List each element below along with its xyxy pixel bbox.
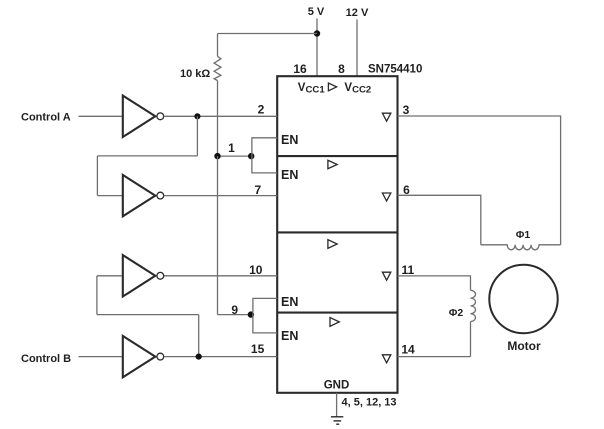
wire pin 2 [164, 115, 278, 117]
IC internal divider 1 [277, 155, 397, 157]
wire pin 11 [398, 276, 471, 290]
junction dot node B [196, 354, 202, 360]
inverter gate B1 [123, 255, 164, 296]
svg-text:EN: EN [281, 329, 298, 343]
resistor R1 10 kOhm zigzag [214, 56, 221, 80]
output symbol driver 4 [382, 355, 390, 363]
svg-text:Φ2: Φ2 [449, 307, 464, 319]
wire pin 6 [398, 195, 481, 245]
wire: 5V rail to resistor top [218, 33, 318, 35]
wire Phi2 bottom lead [470, 322, 472, 357]
svg-text:5 V: 5 V [308, 6, 325, 18]
wire pin 3 [398, 116, 561, 245]
svg-text:Control B: Control B [21, 353, 71, 365]
wire: 12V vertical to pin 8 [356, 20, 358, 77]
wire inverter A2 input [97, 195, 122, 197]
svg-text:9: 9 [231, 303, 238, 317]
buffer symbol driver 4 [330, 318, 339, 327]
svg-text:VCC1: VCC1 [298, 82, 326, 96]
wire feedback B vertical [198, 315, 200, 357]
svg-text:1: 1 [228, 141, 235, 155]
wire inverter B1 input [97, 275, 122, 277]
svg-text:10 kΩ: 10 kΩ [180, 68, 210, 80]
svg-text:Control A: Control A [21, 112, 71, 124]
svg-text:EN: EN [281, 133, 298, 147]
junction dot node 9 [248, 311, 254, 317]
svg-text:GND: GND [324, 379, 350, 391]
svg-text:VCC2: VCC2 [344, 82, 371, 96]
svg-text:8: 8 [338, 62, 345, 76]
inverter gate A1 [123, 96, 164, 137]
svg-text:6: 6 [403, 183, 410, 197]
IC internal divider 2 [277, 231, 397, 233]
svg-text:SN754410: SN754410 [368, 64, 422, 76]
wire rail to node 9 [217, 156, 219, 315]
svg-text:12 V: 12 V [346, 7, 369, 19]
svg-text:2: 2 [258, 103, 265, 117]
svg-text:14: 14 [401, 342, 415, 356]
svg-text:EN: EN [281, 168, 298, 182]
inductor coil Phi2 [471, 290, 476, 321]
buffer symbol driver 1 [328, 83, 336, 91]
buffer symbol driver 3 [328, 240, 337, 249]
svg-text:Motor: Motor [507, 339, 541, 353]
output symbol driver 1 [382, 113, 390, 121]
output symbol driver 2 [382, 193, 390, 201]
wire pin 7 [164, 195, 278, 197]
inverter gate B2 [123, 336, 164, 377]
svg-text:16: 16 [293, 62, 307, 76]
IC U1 SN754410 outline [277, 76, 397, 393]
ground symbol [331, 417, 343, 424]
junction dot on 5V rail [314, 30, 320, 36]
motor M1 circle [489, 265, 557, 333]
wire Control B input [79, 356, 123, 358]
svg-text:15: 15 [251, 342, 265, 356]
junction dot node 1 right [248, 153, 254, 159]
buffer symbol driver 2 [328, 160, 337, 168]
wire feedback A vertical [196, 116, 198, 156]
wire feedback B horizontal [97, 314, 199, 316]
output symbol driver 3 [382, 272, 390, 280]
wire Control A input [79, 115, 123, 117]
junction dot node 1 left [214, 153, 220, 159]
wire node 9 horizontal [218, 314, 251, 316]
svg-text:11: 11 [402, 263, 415, 277]
wire feedback B left vertical [96, 276, 98, 315]
wire pin 15 [164, 356, 278, 358]
wire: 5V vertical to pin 16 [316, 19, 318, 77]
wire node 1 horizontal [218, 155, 252, 157]
svg-text:10: 10 [249, 263, 263, 277]
wire: resistor bottom lead down to node 1 [217, 81, 219, 157]
wire pin 10 [164, 275, 278, 277]
inverter gate A2 [123, 175, 164, 216]
svg-text:EN: EN [281, 295, 298, 309]
IC internal divider 3 [277, 312, 397, 314]
wire GND stem [336, 393, 338, 417]
wire EN bracket driver 3-4 [253, 298, 277, 333]
svg-text:Φ1: Φ1 [516, 229, 531, 241]
inductor coil Phi1 [481, 245, 561, 250]
wire pin 14 [398, 356, 471, 358]
svg-text:7: 7 [254, 183, 261, 197]
junction dot node A [194, 113, 200, 119]
wire feedback A horizontal [97, 155, 197, 157]
wire: resistor top lead [217, 34, 219, 57]
svg-text:3: 3 [403, 103, 410, 117]
wire feedback A left vertical [96, 156, 98, 196]
svg-text:4, 5, 12, 13: 4, 5, 12, 13 [342, 397, 397, 409]
wire EN bracket driver 1-2 [252, 138, 277, 173]
